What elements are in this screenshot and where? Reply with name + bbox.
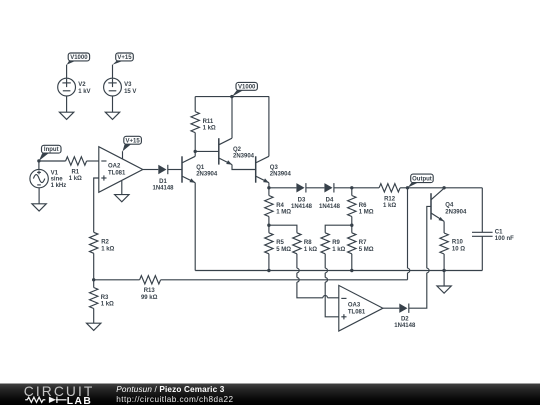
op-amp OA3 TL081 xyxy=(339,285,383,331)
svg-text:R8: R8 xyxy=(304,240,312,246)
svg-text:1 kΩ: 1 kΩ xyxy=(101,302,114,308)
resistor R10 10ohm xyxy=(440,233,465,254)
resistor R3 1k xyxy=(89,280,114,323)
node D4/R6 junction xyxy=(350,186,353,189)
resistor R6 1M xyxy=(348,188,374,225)
wire R13 to output feedback riser xyxy=(161,279,408,281)
wire Q3 collector to top rail xyxy=(268,97,270,157)
svg-text:R1: R1 xyxy=(71,169,79,175)
node R10 bottom junction xyxy=(442,269,445,272)
wire Q1 emitter down xyxy=(194,183,196,271)
svg-text:R11: R11 xyxy=(203,119,214,125)
wire D3 to D4 xyxy=(306,187,325,189)
svg-text:1 kΩ: 1 kΩ xyxy=(304,247,317,253)
wire OA2 non-inverting input to R2 xyxy=(94,178,99,232)
resistor R4 1M xyxy=(265,188,292,225)
wire ground bus (Q1 emitter to C1) xyxy=(195,270,482,272)
svg-text:D4: D4 xyxy=(326,197,334,203)
ground (V2) xyxy=(59,112,73,119)
svg-text:R12: R12 xyxy=(384,196,396,202)
diode D3 1N4148 xyxy=(291,183,313,210)
ground (R3) xyxy=(87,323,101,330)
node R2/R3/R13 junction xyxy=(92,278,95,281)
svg-text:R3: R3 xyxy=(101,295,109,301)
capacitor C1 100nF xyxy=(472,188,514,271)
svg-text:V+15: V+15 xyxy=(126,138,141,144)
svg-text:1 kΩ: 1 kΩ xyxy=(383,203,396,209)
voltage source V2 xyxy=(58,65,91,113)
wire OA2 output to D1 xyxy=(143,169,159,171)
svg-text:15 V: 15 V xyxy=(124,89,136,95)
net flag Input xyxy=(39,145,61,161)
svg-text:R4: R4 xyxy=(276,203,284,209)
svg-text:2N3904: 2N3904 xyxy=(196,172,218,178)
svg-text:LAB: LAB xyxy=(67,396,92,405)
node top rail junction xyxy=(230,95,233,98)
net flag Output xyxy=(408,174,434,188)
node R11/Q1 collector junction xyxy=(194,150,197,153)
wire feedback riser to output node (hops bus) xyxy=(408,188,410,280)
wire output node to Q4 collector node xyxy=(408,187,445,189)
wire R8 to OA3 inverting input (hops buses) xyxy=(297,254,339,298)
wire R9 to OA3 non-inverting input (hops buses) xyxy=(325,254,339,317)
svg-text:Q3: Q3 xyxy=(270,165,279,171)
svg-text:1 kΩ: 1 kΩ xyxy=(101,246,114,252)
node R4/R5/R8 junction xyxy=(267,224,270,227)
resistor R13 99k xyxy=(140,276,161,301)
wire R12 to output node xyxy=(400,187,407,189)
resistor R5 5M xyxy=(265,225,292,270)
wire R11 to junction xyxy=(194,133,196,152)
ground (V1) xyxy=(32,204,46,211)
svg-text:1 kΩ: 1 kΩ xyxy=(332,247,345,253)
svg-text:R13: R13 xyxy=(144,288,156,294)
ground (OA2) xyxy=(115,195,129,202)
svg-text:TL081: TL081 xyxy=(348,309,366,315)
wire OA2 V+ stub xyxy=(122,151,124,159)
svg-text:R10: R10 xyxy=(452,240,464,246)
svg-text:1 MΩ: 1 MΩ xyxy=(276,210,291,216)
wire node to R12 xyxy=(352,187,379,189)
svg-text:99 kΩ: 99 kΩ xyxy=(141,295,158,301)
wire D4 to R6 node xyxy=(334,187,352,189)
op-amp OA2 TL081 xyxy=(99,147,143,193)
svg-text:1 kV: 1 kV xyxy=(78,89,90,95)
wire D1 to Q1 base xyxy=(168,169,182,171)
diode D2 1N4148 xyxy=(394,304,416,330)
resistor R2 1k xyxy=(89,232,114,279)
wire D2 to Q4 base (hops bus) xyxy=(409,206,431,308)
svg-text:2N3904: 2N3904 xyxy=(270,172,292,178)
wire top rail to R11 xyxy=(194,97,196,112)
svg-text:5 MΩ: 5 MΩ xyxy=(276,247,291,253)
svg-text:Pontusun / Piezo Cemaric 3: Pontusun / Piezo Cemaric 3 xyxy=(116,385,224,394)
svg-text:Q2: Q2 xyxy=(233,147,242,153)
wire OA3 output to D2 xyxy=(383,307,399,309)
wire Q1 collector to node xyxy=(194,151,196,156)
svg-text:Input: Input xyxy=(44,147,59,153)
svg-text:10 Ω: 10 Ω xyxy=(452,246,465,252)
diode D4 1N4148 xyxy=(319,183,341,210)
svg-text:1 kHz: 1 kHz xyxy=(51,183,67,189)
wire Q3 emitter to node xyxy=(268,183,270,188)
svg-text:R5: R5 xyxy=(276,240,284,246)
wire node to R13 xyxy=(94,279,140,281)
svg-text:V1000: V1000 xyxy=(70,55,88,61)
svg-text:D1: D1 xyxy=(159,179,167,185)
svg-text:R6: R6 xyxy=(359,203,367,209)
svg-text:1 kΩ: 1 kΩ xyxy=(69,176,82,182)
node Q4 collector junction xyxy=(442,186,445,189)
resistor R8 1k xyxy=(293,233,318,254)
svg-text:C1: C1 xyxy=(495,230,503,236)
svg-text:Output: Output xyxy=(412,177,432,183)
wire R6 node to R9 xyxy=(325,225,352,233)
wire top rail V1000 net xyxy=(195,96,269,98)
svg-text:OA2: OA2 xyxy=(108,163,121,169)
ground (V3) xyxy=(105,112,119,119)
svg-text:D3: D3 xyxy=(298,197,306,203)
net flag V+15 (OA2) xyxy=(123,136,142,151)
svg-text:1 kΩ: 1 kΩ xyxy=(203,126,216,132)
svg-text:2N3904: 2N3904 xyxy=(233,154,255,160)
diode D1 1N4148 xyxy=(152,165,174,192)
svg-text:1 MΩ: 1 MΩ xyxy=(359,210,374,216)
wire Q4 emitter to R10 xyxy=(443,221,445,233)
resistor R12 1k xyxy=(379,184,400,210)
voltage source V1 sine xyxy=(30,161,66,204)
svg-text:D2: D2 xyxy=(401,316,409,322)
resistor R9 1k xyxy=(321,233,346,254)
node Output junction xyxy=(406,186,409,189)
svg-text:5 MΩ: 5 MΩ xyxy=(359,247,374,253)
svg-text:Q1: Q1 xyxy=(196,165,205,171)
node R5 bottom junction xyxy=(267,269,270,272)
wire Q4 node to C1 top xyxy=(444,187,482,189)
wire R4 node to R8 xyxy=(269,225,297,233)
svg-text:sine: sine xyxy=(51,177,64,183)
wire input node to R1 xyxy=(39,160,66,162)
wire Q2 emitter to Q3 base xyxy=(232,165,256,170)
svg-text:OA3: OA3 xyxy=(348,302,361,308)
resistor R11 1k xyxy=(191,112,216,133)
svg-text:http://circuitlab.com/ch8da22: http://circuitlab.com/ch8da22 xyxy=(116,395,233,404)
net flag V1000 (V2) xyxy=(67,53,90,65)
svg-text:V3: V3 xyxy=(124,82,132,88)
svg-text:R2: R2 xyxy=(101,240,109,246)
svg-text:R9: R9 xyxy=(332,240,340,246)
transistor Q4 2N3904 xyxy=(431,188,467,221)
svg-text:R7: R7 xyxy=(359,240,367,246)
wire junction to Q2 base xyxy=(195,150,219,152)
transistor Q3 2N3904 xyxy=(256,156,292,182)
CircuitLab logo xyxy=(24,384,95,405)
resistor R7 5M xyxy=(348,225,374,270)
voltage source V3 xyxy=(104,65,137,113)
resistor R1 1k xyxy=(66,157,87,182)
transistor Q2 2N3904 xyxy=(219,138,255,164)
svg-text:V+15: V+15 xyxy=(117,55,132,61)
svg-text:1N4148: 1N4148 xyxy=(319,204,341,210)
wire Q3 emitter node to D3 xyxy=(269,187,297,189)
net flag V+15 (V3) xyxy=(113,53,134,65)
svg-text:2N3904: 2N3904 xyxy=(445,209,467,215)
ground (main bus) xyxy=(437,271,451,294)
wire R1 to OA2 inverting input xyxy=(87,160,99,162)
svg-text:TL081: TL081 xyxy=(108,170,126,176)
svg-text:V1: V1 xyxy=(51,170,59,176)
wire R10 to bus xyxy=(443,254,445,271)
wire Q2 collector to top rail xyxy=(231,97,233,139)
svg-text:1N4148: 1N4148 xyxy=(394,323,416,329)
node Q3 emitter junction xyxy=(267,186,270,189)
node R7 bottom junction xyxy=(350,269,353,272)
net flag V1000 (top rail) xyxy=(232,82,258,96)
node R6/R7/R9 junction xyxy=(350,224,353,227)
svg-text:100 nF: 100 nF xyxy=(495,236,514,242)
svg-text:Q4: Q4 xyxy=(445,203,454,209)
svg-text:V2: V2 xyxy=(78,82,86,88)
svg-text:V1000: V1000 xyxy=(238,84,256,90)
node Input junction xyxy=(37,159,40,162)
wire OA2 V- stub xyxy=(121,181,123,195)
svg-text:1N4148: 1N4148 xyxy=(152,186,174,192)
transistor Q1 2N3904 xyxy=(182,156,218,182)
svg-text:1N4148: 1N4148 xyxy=(291,204,313,210)
